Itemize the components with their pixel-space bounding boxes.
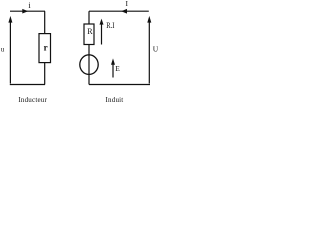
- voltage arrow R.I (head): [100, 19, 104, 25]
- left loop: top wire: [10, 10, 45, 12]
- voltage arrow E (line): [112, 64, 114, 78]
- left loop: right wire lower: [44, 63, 46, 85]
- right loop: left wire upper: [88, 11, 90, 24]
- resistor R: [84, 24, 94, 45]
- left loop: bottom wire: [10, 84, 45, 86]
- voltage arrow u (line): [9, 22, 11, 84]
- svg-text:Induit: Induit: [106, 96, 124, 104]
- current arrow I (arrowhead, pointing left): [121, 9, 127, 14]
- svg-text:r: r: [44, 42, 48, 52]
- voltage arrow U (line): [148, 22, 150, 84]
- svg-text:I: I: [125, 0, 128, 8]
- right loop: left wire through source: [88, 45, 90, 85]
- svg-text:E: E: [115, 64, 120, 73]
- svg-text:U: U: [153, 44, 159, 53]
- svg-text:Inducteur: Inducteur: [18, 96, 47, 104]
- voltage arrow R.I (line): [101, 24, 103, 45]
- left loop: right wire upper: [44, 11, 46, 33]
- svg-text:u: u: [1, 45, 5, 53]
- svg-text:R.I: R.I: [106, 21, 114, 30]
- svg-text:R: R: [87, 27, 93, 36]
- right loop: bottom wire: [89, 84, 150, 86]
- voltage arrow E (head): [111, 58, 115, 64]
- resistor r (inductor winding resistance box): [39, 34, 51, 63]
- svg-text:i: i: [28, 0, 31, 10]
- voltage arrow U (head): [147, 16, 151, 23]
- EMF source E (circle): [80, 55, 98, 75]
- current arrow i (arrowhead): [22, 9, 28, 14]
- voltage arrow u (head): [8, 16, 12, 23]
- right loop: top wire: [89, 10, 149, 12]
